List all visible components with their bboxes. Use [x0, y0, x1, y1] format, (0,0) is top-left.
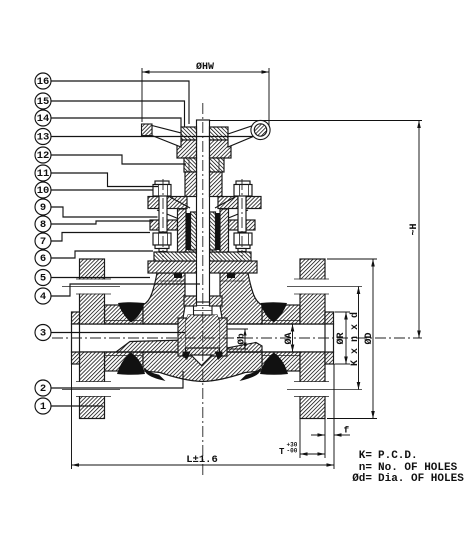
svg-text:f: f	[344, 425, 350, 436]
svg-text:8: 8	[40, 219, 46, 231]
svg-text:K=: K=	[359, 450, 373, 462]
svg-text:4: 4	[40, 291, 46, 303]
svg-text:Dia. OF HOLES: Dia. OF HOLES	[378, 473, 464, 485]
svg-text:16: 16	[37, 76, 50, 88]
svg-text:9: 9	[40, 202, 46, 214]
svg-text:2: 2	[40, 383, 46, 395]
svg-text:14: 14	[37, 113, 50, 125]
svg-text:T: T	[279, 447, 285, 457]
svg-text:~H: ~H	[409, 223, 420, 235]
svg-text:5: 5	[40, 273, 46, 285]
svg-text:3: 3	[40, 328, 46, 340]
svg-text:6: 6	[40, 253, 46, 265]
svg-text:ØHW: ØHW	[196, 61, 214, 73]
svg-text:11: 11	[37, 168, 50, 180]
svg-text:1: 1	[40, 401, 46, 413]
svg-text:10: 10	[37, 185, 50, 197]
svg-text:-00: -00	[287, 448, 298, 455]
svg-text:7: 7	[40, 236, 46, 248]
svg-text:13: 13	[37, 132, 50, 144]
svg-text:P.C.D.: P.C.D.	[378, 450, 418, 462]
svg-text:ØA: ØA	[283, 332, 295, 344]
svg-text:L±1.6: L±1.6	[186, 454, 218, 466]
svg-text:Øb: Øb	[236, 333, 247, 345]
svg-text:K x n x d: K x n x d	[349, 312, 361, 366]
svg-text:ØR: ØR	[335, 332, 347, 344]
svg-text:12: 12	[37, 150, 50, 162]
svg-text:ØD: ØD	[363, 332, 375, 344]
svg-text:Ød=: Ød=	[352, 473, 372, 485]
svg-text:15: 15	[37, 96, 50, 108]
